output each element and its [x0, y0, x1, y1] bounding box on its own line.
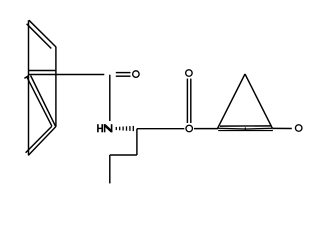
- ring top double bond outer line: [29, 20, 56, 47]
- ring middle double bond inner line: [29, 70, 56, 72]
- ring lower-right double bond outer line: [31, 76, 56, 127]
- bond carbonyl C to amide N: [109, 75, 111, 121]
- ring base double bond inner line: [220, 125, 271, 127]
- atom label N of HN: [104, 124, 113, 132]
- ring base junction tick: [245, 128, 246, 131]
- O=O double bond line 1: [186, 79, 188, 123]
- propyl chain bond 3 (terminal CH3 down): [109, 155, 111, 183]
- ring right vertical edge: [55, 47, 57, 127]
- ring base bottom line: [218, 129, 273, 131]
- atom label O (ester oxygen): [186, 125, 193, 132]
- bond ester O to cyclopropene ring: [194, 128, 218, 130]
- ring top double bond inner line: [27, 24, 52, 49]
- atom label H of HN: [97, 124, 103, 132]
- ring left vertical edge: [28, 20, 30, 155]
- ring bottom edge and bond to carbonyl C: [29, 74, 105, 76]
- propyl chain bond 2 (horizontal): [110, 154, 137, 156]
- ring bottom-left double bond inner line: [26, 126, 52, 153]
- bond chiral C to ester O: [137, 128, 184, 130]
- ring lower-right double bond inner line: [27, 77, 52, 126]
- propyl chain bond 1 (chiral C down): [136, 129, 138, 155]
- atom label O (ketone right): [295, 125, 302, 132]
- cyclopropene right edge: [245, 74, 272, 128]
- stereo hashed wedge bond N to chiral C: [116, 126, 133, 131]
- bond ring to ketone O: [272, 127, 291, 129]
- atom label O (amide carbonyl): [133, 71, 140, 78]
- amide C=O double bond line 2: [116, 75, 131, 77]
- atom label O (top carbonyl of ester): [186, 70, 193, 77]
- cyclopropene left edge: [218, 74, 246, 129]
- ring lower-left junction tick: [24, 76, 28, 79]
- O=O double bond line 2: [190, 79, 192, 123]
- ring base bond left segment: [218, 127, 246, 130]
- ring bottom-left double bond outer line: [28, 127, 55, 156]
- amide C=O double bond line 1: [116, 72, 131, 74]
- ring base bond right segment: [246, 127, 272, 130]
